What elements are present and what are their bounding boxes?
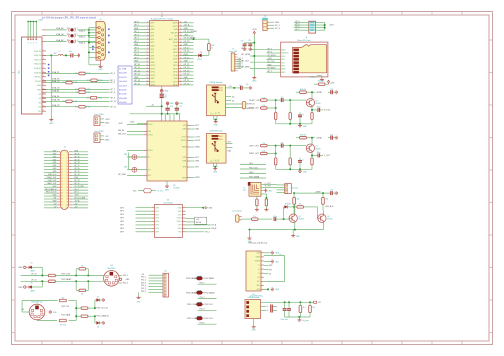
- svg-text:D+: D+: [211, 112, 213, 114]
- R19 bottom: [59, 319, 66, 326]
- svg-text:D+: D+: [258, 269, 260, 271]
- svg-text:J13 USB A Plug: J13 USB A Plug: [250, 295, 263, 298]
- svg-text:17: 17: [61, 175, 63, 177]
- svg-text:+3V3_ALS: +3V3_ALS: [325, 205, 334, 208]
- svg-text:UP_3: UP_3: [134, 34, 139, 36]
- svg-text:UP_7: UP_7: [110, 89, 115, 91]
- svg-text:BUS2: BUS2: [219, 139, 223, 141]
- svg-text:GP11: GP11: [150, 68, 155, 70]
- svg-text:DM2: DM2: [182, 129, 186, 131]
- Q4 amp R mix: [275, 154, 277, 170]
- svg-text:GND: GND: [252, 80, 257, 82]
- svg-text:UP_3: UP_3: [275, 28, 281, 30]
- cap C16: [165, 102, 174, 114]
- svg-text:PS2_3: PS2_3: [141, 282, 146, 284]
- svg-text:14: 14: [66, 169, 68, 171]
- svg-text:UP_4: UP_4: [110, 73, 115, 75]
- svg-text:40: 40: [66, 207, 68, 209]
- U3 right wires: [186, 224, 218, 234]
- Q3 amp ground: [298, 124, 308, 128]
- label Q6: [327, 216, 332, 221]
- svg-text:20: 20: [66, 178, 68, 180]
- svg-text:GND: GND: [275, 22, 280, 24]
- svg-text:GND: GND: [39, 20, 44, 22]
- oscillator circle 1: [124, 154, 137, 160]
- svg-text:DP2: DP2: [269, 269, 272, 271]
- jack pulldown R21: [264, 198, 268, 211]
- resistor row VGA_VS: [42, 104, 116, 108]
- svg-text:UP_CLK: UP_CLK: [241, 60, 249, 62]
- svg-text:15: 15: [61, 172, 63, 174]
- svg-text:PS2_6: PS2_6: [141, 291, 146, 293]
- J13 res R28: [299, 302, 305, 317]
- svg-text:PS2_1: PS2_1: [200, 283, 205, 285]
- svg-text:270: 270: [75, 92, 78, 94]
- svg-text:DAT0: DAT0: [281, 68, 285, 71]
- svg-text:UP_19: UP_19: [74, 159, 79, 161]
- svg-text:GP0: GP0: [150, 23, 154, 25]
- resistor R10: [314, 80, 334, 85]
- svg-text:+5V: +5V: [105, 136, 109, 138]
- svg-text:100n: 100n: [317, 107, 321, 109]
- svg-text:PS/2_DATA_IN: PS/2_DATA_IN: [45, 188, 57, 191]
- svg-text:+3V3: +3V3: [184, 34, 188, 36]
- svg-text:TL1: TL1: [75, 28, 78, 30]
- svg-text:GND: GND: [37, 85, 42, 87]
- svg-text:VGA_G0: VGA_G0: [34, 63, 41, 66]
- SHIELD stub: [310, 76, 324, 81]
- rail above U2: [130, 113, 181, 115]
- svg-text:R0=D0R: R0=D0R: [119, 73, 127, 75]
- svg-text:VB: VB: [216, 112, 218, 114]
- diode tap wire: [283, 207, 285, 219]
- svg-text:GND: GND: [173, 62, 178, 64]
- svg-text:18: 18: [66, 175, 68, 177]
- svg-text:Y2 3.5x: Y2 3.5x: [157, 191, 163, 193]
- resistor row VGA_G0: [42, 87, 115, 91]
- svg-text:R_OUT: R_OUT: [324, 110, 331, 112]
- connector J11 body: [149, 273, 169, 297]
- svg-text:3: 3: [43, 58, 44, 60]
- svg-text:D0+: D0+: [232, 96, 235, 98]
- Q3 amp R base: [289, 100, 291, 124]
- svg-text:GP28: GP28: [173, 42, 178, 44]
- svg-text:DP3: DP3: [183, 157, 187, 159]
- svg-text:VS=D0V: VS=D0V: [119, 102, 127, 104]
- J13 fuse: [314, 301, 322, 304]
- Q3 amp emitter wire: [311, 107, 313, 110]
- label J8 USB-A2: [210, 130, 224, 133]
- svg-text:10k: 10k: [81, 294, 84, 296]
- svg-text:+3V3: +3V3: [118, 123, 122, 125]
- svg-text:HS=D0H: HS=D0H: [119, 98, 128, 100]
- Q4 amp mix node: [275, 145, 277, 155]
- svg-text:BUS2: BUS2: [219, 90, 223, 92]
- power connector J7: [94, 114, 110, 126]
- Q4 amp R emitter: [311, 155, 313, 169]
- svg-text:UP_4: UP_4: [134, 38, 139, 40]
- svg-text:cfg_jmpr: cfg_jmpr: [302, 319, 309, 322]
- svg-text:UP_26: UP_26: [74, 180, 79, 182]
- svg-text:4k7: 4k7: [303, 307, 306, 309]
- svg-text:GND: GND: [303, 126, 308, 128]
- svg-text:GND: GND: [268, 190, 273, 192]
- svg-text:110p: 110p: [69, 51, 73, 53]
- svg-text:VDD: VDD: [281, 59, 285, 61]
- svg-text:4k7: 4k7: [312, 307, 315, 309]
- svg-text:UP_15: UP_15: [134, 83, 140, 85]
- fuse PS2_2: [186, 291, 217, 299]
- svg-text:D2+: D2+: [257, 281, 260, 283]
- svg-text:12: 12: [146, 57, 148, 59]
- svg-text:VGA_B0: VGA_B0: [34, 71, 41, 74]
- svg-text:UP_14: UP_14: [134, 80, 140, 82]
- svg-text:DM3: DM3: [195, 161, 199, 163]
- diode D7: [94, 297, 104, 310]
- svg-text:GP2: GP2: [120, 207, 124, 209]
- svg-text:C17: C17: [179, 106, 182, 108]
- svg-text:PS2_6: PS2_6: [200, 323, 205, 325]
- resistor row VGA_R0: [42, 78, 115, 82]
- svg-text:47k: 47k: [299, 204, 302, 206]
- svg-text:PS/2 CLK: PS/2 CLK: [61, 306, 70, 308]
- svg-text:J14: J14: [110, 265, 113, 267]
- svg-text:DP1: DP1: [178, 225, 182, 227]
- svg-text:DM2: DM2: [269, 265, 272, 267]
- pullup R15: [76, 281, 88, 295]
- svg-text:10: 10: [66, 163, 68, 165]
- svg-text:29: 29: [61, 193, 63, 195]
- svg-text:UP_10: UP_10: [134, 64, 140, 66]
- VGA ground bus: [88, 27, 101, 65]
- PS2 mid wires: [240, 163, 266, 179]
- svg-text:GP22: GP22: [173, 59, 178, 61]
- svg-text:C15: C15: [330, 190, 333, 192]
- svg-text:+5V: +5V: [196, 219, 200, 221]
- Q5 base link: [318, 207, 319, 218]
- svg-text:J1: J1: [63, 146, 66, 148]
- svg-text:DM1: DM1: [228, 150, 232, 152]
- micro SD card J6 body: [281, 42, 328, 77]
- svg-text:DOUT: DOUT: [148, 135, 154, 137]
- svg-text:DP2: DP2: [195, 125, 199, 127]
- svg-text:28: 28: [66, 190, 68, 192]
- svg-text:UP_11: UP_11: [134, 67, 140, 69]
- svg-text:43k: 43k: [297, 199, 300, 201]
- svg-text:UP_15: UP_15: [74, 171, 79, 173]
- svg-text:GP2: GP2: [155, 214, 159, 216]
- svg-text:C8: C8: [164, 94, 166, 96]
- svg-text:PS/2 CLK2: PS/2 CLK2: [61, 273, 70, 275]
- svg-text:UP_SDA: UP_SDA: [118, 173, 126, 176]
- svg-text:+3V3A: +3V3A: [316, 91, 322, 94]
- svg-text:VGA_BK: VGA_BK: [56, 39, 64, 42]
- svg-text:17: 17: [146, 74, 148, 76]
- Q4 amp base wire: [289, 145, 306, 147]
- svg-text:+3V3: +3V3: [329, 25, 335, 27]
- svg-text:ID0: ID0: [38, 107, 41, 109]
- svg-text:CMD: CMD: [281, 56, 286, 58]
- svg-text:7: 7: [61, 160, 62, 162]
- svg-text:270: 270: [75, 106, 78, 108]
- svg-text:L_OUT: L_OUT: [265, 183, 272, 185]
- svg-text:jack: jack: [242, 190, 246, 192]
- svg-text:GND: GND: [184, 44, 189, 46]
- svg-text:BC850: BC850: [299, 219, 304, 221]
- connector CN1 box: [22, 37, 43, 114]
- resistor row VGA_B0: [42, 95, 115, 99]
- svg-text:10k: 10k: [263, 143, 266, 145]
- svg-text:UP_26: UP_26: [184, 51, 190, 53]
- ground at wire end: [49, 118, 53, 121]
- svg-text:UP_28_REF: UP_28_REF: [74, 186, 83, 188]
- Q4 amp transistor label: [315, 146, 320, 151]
- svg-text:GP6: GP6: [150, 49, 154, 51]
- J12 gnd bottom: [264, 287, 280, 291]
- svg-text:1: 1: [237, 54, 238, 56]
- svg-text:R17 10k: R17 10k: [60, 324, 66, 326]
- J15 plus5: [21, 309, 25, 311]
- svg-text:UP_MOSI: UP_MOSI: [267, 55, 276, 57]
- svg-text:5: 5: [61, 157, 62, 159]
- svg-text:DAT3/CD: DAT3/CD: [281, 52, 289, 55]
- svg-text:J11: J11: [164, 271, 167, 273]
- svg-text:VGA_B1: VGA_B1: [52, 90, 59, 93]
- svg-text:D7: D7: [97, 297, 99, 299]
- svg-text:UP_1: UP_1: [134, 25, 139, 27]
- resistor R30: [208, 44, 211, 51]
- audio jack J9 body: [248, 182, 261, 196]
- svg-text:GND: GND: [275, 289, 280, 291]
- svg-text:19: 19: [146, 80, 148, 82]
- svg-text:GND: GND: [179, 103, 183, 105]
- svg-text:GP8: GP8: [120, 228, 124, 230]
- svg-text:GP4: GP4: [120, 214, 124, 216]
- svg-text:UP_2: UP_2: [134, 31, 139, 33]
- svg-text:DM3: DM3: [182, 161, 186, 163]
- svg-text:PS_2: PS_2: [205, 232, 209, 234]
- svg-text:GND: GND: [126, 279, 131, 281]
- svg-text:GP19: GP19: [173, 72, 178, 74]
- svg-text:UP_14: UP_14: [74, 174, 79, 176]
- connector CN1 pins: [34, 50, 49, 113]
- svg-text:GND: GND: [173, 78, 178, 80]
- svg-text:100n 100n: 100n 100n: [281, 319, 289, 321]
- svg-text:UP_8: UP_8: [110, 92, 115, 94]
- svg-text:DP2: DP2: [183, 125, 187, 127]
- Q4 amp series cap: [276, 142, 291, 147]
- svg-text:33: 33: [61, 199, 63, 201]
- svg-text:GP5: GP5: [150, 42, 154, 44]
- svg-text:UP_17: UP_17: [184, 80, 190, 82]
- svg-text:B1=D1B: B1=D1B: [119, 94, 127, 96]
- label CN1: [19, 69, 21, 74]
- Q3 amp output label: [324, 110, 331, 112]
- svg-text:R1=D1R: R1=D1R: [119, 77, 127, 79]
- svg-text:27: 27: [61, 190, 63, 192]
- svg-text:9: 9: [43, 84, 44, 86]
- svg-text:Conn_01x02: Conn_01x02: [232, 210, 242, 212]
- svg-text:JP4: JP4: [54, 53, 57, 55]
- svg-text:VGA_GK: VGA_GK: [56, 33, 65, 36]
- label J1: [63, 146, 66, 148]
- label J15 MiniDIN: [31, 302, 42, 304]
- svg-text:VBUS: VBUS: [173, 23, 179, 25]
- svg-text:VGA_HS: VGA_HS: [52, 99, 60, 102]
- svg-text:GND: GND: [178, 211, 183, 213]
- svg-text:MIDP_OUT: MIDP_OUT: [249, 108, 260, 110]
- svg-text:RIGHT_OUT: RIGHT_OUT: [47, 177, 57, 179]
- jack wires: [261, 183, 277, 199]
- svg-text:+3V3: +3V3: [74, 195, 78, 197]
- label J12: [248, 294, 260, 299]
- svg-text:GP9: GP9: [120, 231, 124, 233]
- svg-text:GP5: GP5: [120, 218, 124, 220]
- svg-text:11: 11: [147, 54, 149, 56]
- svg-text:GND: GND: [209, 207, 214, 209]
- svg-text:16: 16: [66, 172, 68, 174]
- svg-text:TL2: TL2: [75, 34, 78, 36]
- Q6 collector: [323, 210, 325, 214]
- svg-text:PS/2 DATA2: PS/2 DATA2: [186, 291, 196, 294]
- svg-text:+5V: +5V: [21, 309, 25, 311]
- svg-text:1N4148: 1N4148: [285, 204, 291, 206]
- svg-text:THR1=(1+15)*(R+12): THR1=(1+15)*(R+12): [248, 243, 268, 245]
- VGA connector X1: [92, 21, 109, 60]
- connector J3 SIL8: [231, 53, 243, 72]
- transistor Q6: [318, 214, 326, 223]
- J12 gnd row3: [264, 260, 280, 264]
- Q3 amp collector resistor: [296, 89, 315, 93]
- svg-text:UP_16: UP_16: [184, 83, 190, 85]
- bottom rail2: [249, 222, 324, 231]
- J15 bottom stub: [0, 0, 1, 1]
- ground under X1: [99, 65, 103, 68]
- Q4 amp bottom rail: [276, 168, 312, 170]
- svg-text:10k: 10k: [263, 105, 266, 107]
- svg-text:GP27: GP27: [173, 49, 178, 51]
- svg-text:INT: INT: [54, 198, 57, 200]
- svg-text:VGA_B0: VGA_B0: [52, 95, 59, 98]
- label U2: [173, 185, 179, 190]
- label GND under X1: [98, 69, 103, 71]
- svg-text:35: 35: [61, 202, 63, 204]
- svg-text:UP_19: UP_19: [184, 70, 190, 72]
- svg-text:DM_IN: DM_IN: [118, 130, 125, 132]
- label J11: [164, 271, 167, 273]
- connector J15 MiniDIN body: [29, 304, 45, 320]
- svg-text:25: 25: [61, 187, 63, 189]
- svg-text:ROUT: ROUT: [195, 140, 201, 142]
- svg-text:MIDP_OUT: MIDP_OUT: [48, 183, 57, 185]
- J12 small stubs: [264, 265, 273, 275]
- svg-text:UP_MISO: UP_MISO: [267, 68, 276, 70]
- J11 labels: [139, 274, 147, 296]
- svg-text:BAT54: BAT54: [31, 289, 36, 292]
- svg-text:GP1: GP1: [155, 211, 159, 213]
- svg-text:47n: 47n: [281, 97, 284, 99]
- svg-text:GP1: GP1: [150, 26, 154, 28]
- label 3V3ALS: [325, 205, 334, 208]
- svg-text:R26 4k7: R26 4k7: [300, 89, 306, 91]
- label Micro SD Card: [297, 40, 310, 42]
- J2 ground: [214, 116, 219, 127]
- svg-text:UP_20: UP_20: [74, 156, 79, 158]
- svg-text:PWR: PWR: [182, 177, 187, 179]
- J13 bottom rail: [285, 316, 310, 318]
- svg-text:+3V3: +3V3: [252, 29, 256, 31]
- svg-text:U1: U1: [161, 16, 164, 18]
- svg-text:GND: GND: [134, 77, 139, 79]
- svg-text:GND: GND: [184, 61, 189, 63]
- svg-text:3: 3: [28, 43, 29, 45]
- svg-text:GP7: GP7: [155, 231, 159, 233]
- capacitor C20: [241, 41, 254, 51]
- connector J2 USB-A body: [207, 85, 226, 116]
- connector J13 body: [245, 300, 261, 319]
- svg-text:R26 4k7: R26 4k7: [300, 135, 306, 137]
- resistor row VGA_R1: [42, 71, 115, 75]
- svg-text:18: 18: [146, 77, 148, 79]
- svg-text:UP_6: UP_6: [110, 82, 115, 84]
- svg-text:PS2_4: PS2_4: [141, 285, 146, 287]
- Q4 amp input MIDP_OUT: [249, 151, 275, 156]
- svg-text:GND: GND: [134, 44, 139, 46]
- svg-text:UP_0: UP_0: [134, 21, 139, 23]
- svg-text:11: 11: [61, 166, 63, 168]
- label X1: [99, 19, 101, 21]
- Q4 amp output label: [324, 155, 331, 157]
- svg-text:PS2_2: PS2_2: [141, 280, 146, 282]
- svg-text:GND: GND: [164, 91, 169, 93]
- Q3 amp R emitter: [311, 110, 313, 124]
- svg-text:MiniDIN6F J15: MiniDIN6F J15: [31, 302, 42, 304]
- svg-text:X1: X1: [99, 19, 101, 21]
- svg-text:GND: GND: [134, 61, 139, 63]
- svg-text:D5: D5: [31, 263, 33, 265]
- svg-text:GND: GND: [37, 90, 42, 92]
- svg-text:C20: C20: [241, 41, 244, 43]
- svg-text:GND: GND: [150, 45, 155, 47]
- svg-text:10k: 10k: [81, 266, 84, 268]
- connector J1 body: [60, 150, 68, 209]
- jumper JP1 row VGA_RK: [42, 27, 96, 33]
- Q3 amp base wire: [289, 99, 306, 101]
- svg-text:31: 31: [61, 196, 63, 198]
- svg-text:GP17: GP17: [173, 81, 178, 83]
- svg-text:R22: R22: [133, 190, 136, 192]
- label Q5: [299, 216, 304, 221]
- svg-text:D0-: D0-: [232, 100, 235, 102]
- svg-text:UP_MOSI: UP_MOSI: [241, 54, 250, 56]
- wire bundle to CN connector: [27, 21, 37, 38]
- svg-text:UP_3: UP_3: [74, 192, 78, 194]
- svg-text:R2: R2: [39, 94, 41, 96]
- J13 rail top: [261, 301, 314, 303]
- svg-text:GND: GND: [184, 28, 189, 30]
- svg-text:12M: 12M: [124, 167, 128, 169]
- svg-text:PS2_5: PS2_5: [123, 283, 128, 285]
- svg-text:LEFT_OUT: LEFT_OUT: [249, 145, 260, 147]
- fuse PS2_1: [186, 276, 217, 284]
- Q3 amp bottom rail: [276, 123, 312, 125]
- svg-text:VBUS2: VBUS2: [255, 261, 261, 263]
- label U3: [163, 200, 172, 205]
- svg-text:DDD1: DDD1: [177, 221, 182, 223]
- svg-text:3: 3: [36, 43, 37, 45]
- svg-text:270: 270: [75, 89, 78, 91]
- svg-text:GP16: GP16: [173, 85, 178, 87]
